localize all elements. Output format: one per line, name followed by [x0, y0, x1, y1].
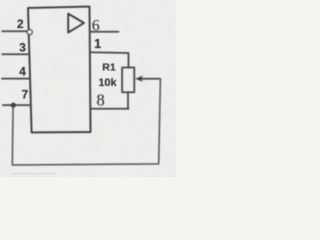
- svg-text:10k: 10k: [98, 77, 117, 89]
- pin 3 wire: [2, 53, 29, 55]
- svg-text:4: 4: [19, 65, 26, 79]
- IC body: [28, 7, 91, 133]
- wiper arrow: [140, 78, 160, 80]
- pin 2 wire: [2, 30, 27, 32]
- scan smudge bottom: [12, 173, 56, 175]
- svg-text:6: 6: [92, 18, 100, 35]
- svg-text:R1: R1: [102, 62, 116, 74]
- svg-text:8: 8: [96, 90, 104, 109]
- svg-text:2: 2: [17, 17, 24, 31]
- pin 1 wire: [90, 52, 129, 67]
- pin 6 wire: [90, 31, 119, 33]
- svg-text:1: 1: [94, 36, 101, 51]
- svg-text:3: 3: [19, 41, 26, 55]
- amplifier triangle: [68, 14, 84, 33]
- resistor R1 bottom lead: [127, 92, 129, 109]
- feedback wire: [12, 79, 160, 165]
- svg-text:7: 7: [22, 87, 29, 101]
- junction dot: [11, 103, 16, 108]
- inverting input bubble: [27, 30, 32, 35]
- pin 4 wire: [2, 78, 30, 80]
- pin 7 wire: [3, 104, 31, 106]
- resistor R1: [122, 68, 134, 93]
- pin 8 wire: [91, 108, 129, 110]
